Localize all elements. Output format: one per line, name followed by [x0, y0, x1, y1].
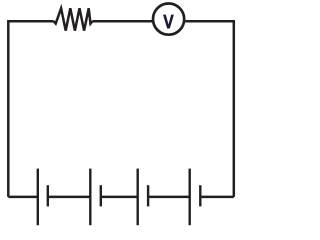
battery cell 4 short plate	[199, 185, 201, 206]
battery cell 2 short plate	[100, 185, 102, 206]
wire cell4 to bottom-right corner	[200, 196, 234, 199]
voltmeter circle	[153, 4, 184, 35]
wire bottom bus: left corner to cell1 long plate	[8, 196, 38, 199]
wire cell1 to cell2	[48, 196, 91, 199]
voltmeter label V	[163, 15, 174, 29]
battery cell 4 long plate	[188, 169, 190, 226]
resistor R zigzag	[54, 8, 93, 30]
wire resistor to voltmeter	[92, 20, 153, 23]
battery cell 2 long plate	[89, 169, 91, 226]
battery cell 3 long plate	[136, 169, 138, 226]
battery cell 3 short plate	[147, 185, 149, 206]
wire cell3 to cell4	[148, 196, 190, 199]
wire cell2 to cell3	[101, 196, 138, 199]
battery cell 1 short plate	[47, 185, 49, 206]
wire left side (top-left corner: top wire to left vertical down to bottom bus)	[8, 21, 53, 197]
battery cell 1 long plate	[37, 169, 39, 226]
wire voltmeter to top-right corner and right vertical	[185, 21, 234, 197]
